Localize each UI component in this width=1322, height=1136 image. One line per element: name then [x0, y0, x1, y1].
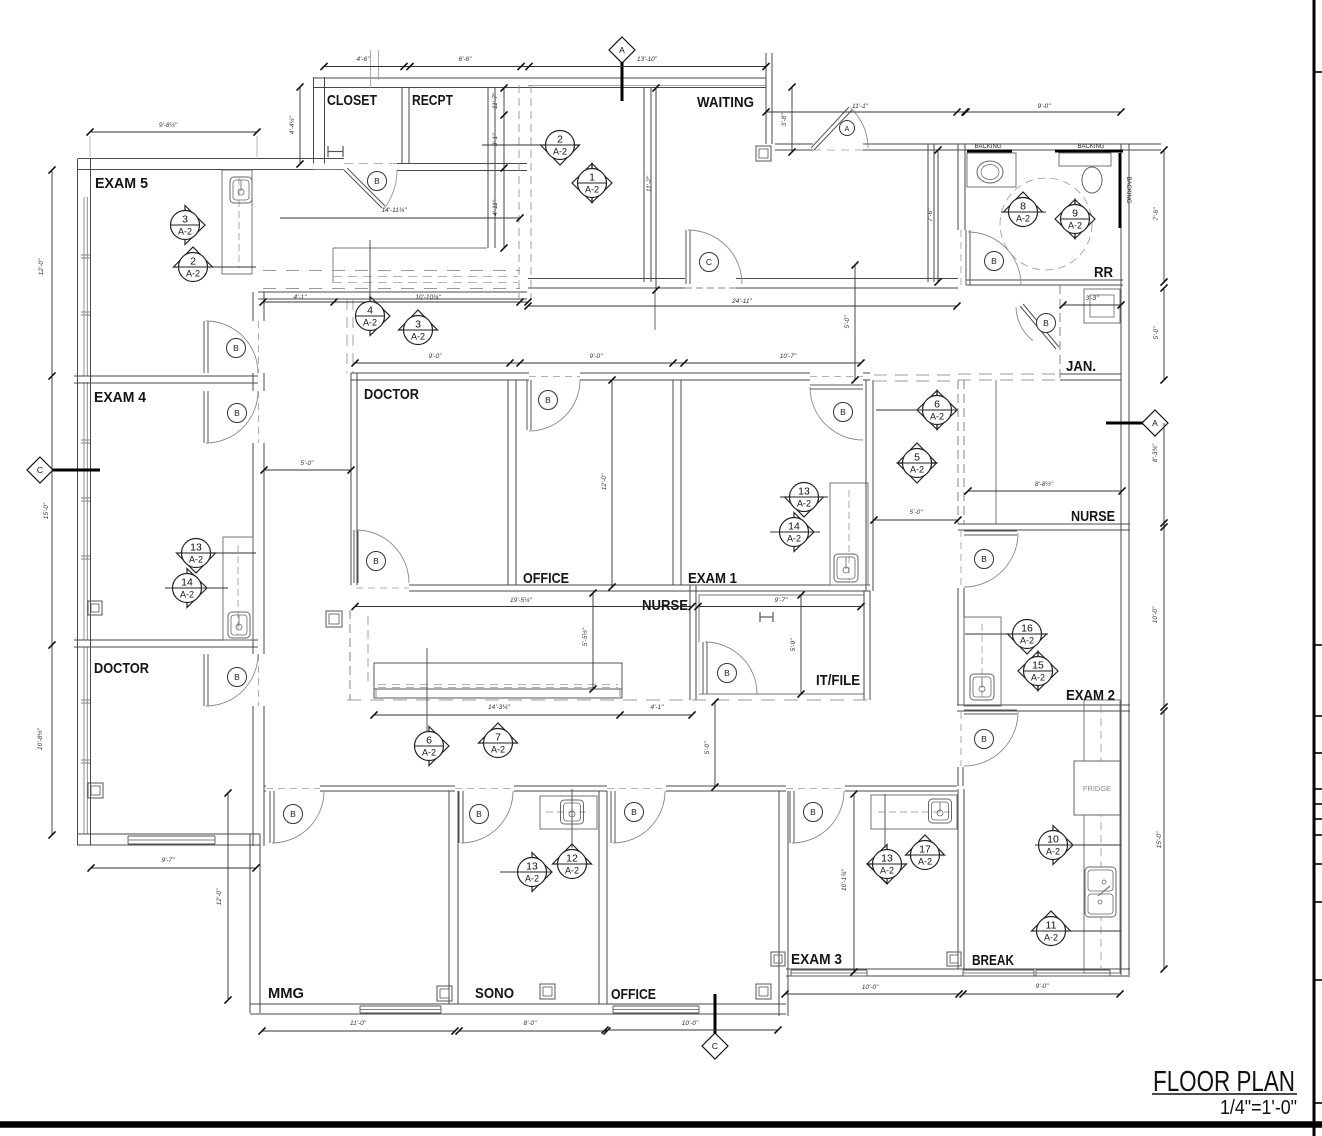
svg-text:EXAM 2: EXAM 2: [1066, 687, 1115, 704]
svg-text:7'-6": 7'-6": [927, 208, 934, 222]
svg-text:A-2: A-2: [1020, 636, 1034, 646]
svg-text:15: 15: [1032, 660, 1044, 672]
svg-text:B: B: [373, 556, 379, 566]
svg-text:A-2: A-2: [787, 534, 801, 544]
svg-text:RECPT: RECPT: [412, 92, 453, 109]
svg-text:19'-5¼": 19'-5¼": [510, 597, 533, 604]
svg-text:A: A: [845, 126, 850, 133]
svg-text:15'-0": 15'-0": [1156, 831, 1163, 848]
svg-text:A-2: A-2: [585, 185, 599, 195]
svg-text:A-2: A-2: [880, 866, 894, 876]
svg-text:13: 13: [798, 486, 810, 498]
svg-text:A-2: A-2: [565, 866, 579, 876]
svg-text:11'-1": 11'-1": [852, 103, 869, 110]
svg-text:BREAK: BREAK: [972, 952, 1014, 969]
svg-text:16: 16: [1021, 623, 1033, 635]
svg-text:A-2: A-2: [910, 465, 924, 475]
svg-text:BACKING: BACKING: [1077, 144, 1104, 150]
svg-text:B: B: [724, 668, 730, 678]
svg-text:4: 4: [367, 305, 373, 317]
svg-text:EXAM 1: EXAM 1: [688, 570, 737, 587]
svg-text:9'-0": 9'-0": [1038, 103, 1052, 110]
svg-text:13: 13: [881, 853, 893, 865]
svg-text:NURSE: NURSE: [1071, 508, 1115, 525]
svg-text:EXAM 5: EXAM 5: [95, 175, 148, 192]
svg-text:9: 9: [1072, 208, 1078, 220]
svg-text:5'-9": 5'-9": [790, 638, 797, 652]
svg-text:1/4"=1'-0": 1/4"=1'-0": [1220, 1097, 1297, 1119]
svg-text:A-2: A-2: [930, 412, 944, 422]
svg-text:4'-1": 4'-1": [294, 294, 308, 301]
svg-text:14: 14: [181, 577, 193, 589]
svg-text:15'-0": 15'-0": [43, 502, 50, 519]
svg-text:14'-3¼": 14'-3¼": [488, 704, 511, 711]
svg-text:A-2: A-2: [553, 147, 567, 157]
svg-text:10'-0": 10'-0": [1152, 606, 1159, 623]
svg-text:10: 10: [1047, 834, 1059, 846]
svg-text:3: 3: [415, 319, 421, 331]
svg-text:FRIDGE: FRIDGE: [1083, 784, 1111, 793]
svg-text:A-2: A-2: [1068, 221, 1082, 231]
svg-text:9'-8½": 9'-8½": [159, 121, 178, 129]
svg-text:C: C: [37, 465, 43, 475]
svg-text:9'-7": 9'-7": [775, 597, 789, 604]
svg-text:10'-0": 10'-0": [682, 1020, 699, 1027]
svg-text:1: 1: [589, 172, 595, 184]
svg-text:A-2: A-2: [1031, 673, 1045, 683]
svg-text:C: C: [706, 257, 712, 267]
svg-text:A-2: A-2: [422, 748, 436, 758]
svg-text:4'-6": 4'-6": [357, 56, 371, 63]
svg-text:5: 5: [914, 452, 920, 464]
svg-text:24'-11": 24'-11": [731, 298, 752, 305]
svg-text:A-2: A-2: [186, 269, 200, 279]
svg-text:5'-0": 5'-0": [910, 509, 924, 516]
svg-text:B: B: [234, 408, 240, 418]
svg-text:3'-3": 3'-3": [1086, 295, 1100, 302]
svg-text:11: 11: [1046, 920, 1057, 932]
svg-text:IT/FILE: IT/FILE: [816, 672, 860, 689]
svg-text:A-2: A-2: [1046, 847, 1060, 857]
svg-text:12: 12: [566, 853, 578, 865]
svg-text:11'-0": 11'-0": [350, 1020, 367, 1027]
svg-text:12'-0": 12'-0": [38, 258, 45, 275]
svg-text:13: 13: [526, 861, 538, 873]
svg-text:3'-1": 3'-1": [492, 133, 499, 147]
svg-text:DOCTOR: DOCTOR: [364, 386, 419, 403]
svg-text:A-2: A-2: [189, 555, 203, 565]
svg-text:B: B: [840, 407, 846, 417]
svg-text:A-2: A-2: [1016, 214, 1030, 224]
svg-text:B: B: [981, 734, 987, 744]
svg-text:BACKING: BACKING: [1125, 176, 1131, 203]
svg-text:6'-6": 6'-6": [459, 56, 473, 63]
svg-text:B: B: [233, 343, 239, 353]
svg-text:10'-7": 10'-7": [780, 353, 797, 360]
svg-text:7'-6": 7'-6": [1153, 207, 1160, 221]
svg-text:FLOOR PLAN: FLOOR PLAN: [1153, 1066, 1295, 1098]
svg-text:4'-4½": 4'-4½": [288, 115, 296, 134]
svg-text:B: B: [631, 807, 637, 817]
svg-text:11'-2": 11'-2": [646, 175, 653, 192]
svg-text:DOCTOR: DOCTOR: [94, 660, 149, 677]
svg-text:13'-10": 13'-10": [637, 56, 658, 63]
svg-text:C: C: [712, 1041, 718, 1051]
svg-text:A-2: A-2: [178, 227, 192, 237]
svg-text:3'-8": 3'-8": [781, 113, 788, 127]
svg-text:MMG: MMG: [268, 985, 304, 1002]
svg-text:6: 6: [426, 735, 432, 747]
svg-text:RR: RR: [1094, 264, 1113, 281]
svg-text:5'-0": 5'-0": [844, 315, 851, 329]
svg-text:WAITING: WAITING: [697, 94, 754, 111]
svg-text:SONO: SONO: [475, 985, 514, 1002]
svg-text:14'-11¼": 14'-11¼": [381, 207, 407, 214]
svg-text:14: 14: [788, 521, 800, 533]
svg-text:B: B: [290, 809, 296, 819]
svg-text:B: B: [981, 554, 987, 564]
svg-text:B: B: [991, 256, 997, 266]
svg-text:OFFICE: OFFICE: [523, 570, 569, 587]
svg-text:6: 6: [934, 399, 940, 411]
svg-text:5'-5½": 5'-5½": [581, 627, 589, 646]
svg-text:11'-7": 11'-7": [492, 92, 499, 109]
svg-text:10'-1¾": 10'-1¾": [841, 868, 848, 891]
svg-text:B: B: [234, 672, 240, 682]
svg-text:8'-0": 8'-0": [524, 1020, 538, 1027]
svg-text:5'-0": 5'-0": [301, 460, 315, 467]
svg-text:9'-0": 9'-0": [1036, 983, 1050, 990]
svg-text:2: 2: [190, 256, 196, 268]
svg-text:A-2: A-2: [797, 499, 811, 509]
svg-text:10'-0": 10'-0": [862, 984, 879, 991]
svg-text:JAN.: JAN.: [1066, 358, 1096, 375]
svg-text:17: 17: [919, 844, 931, 856]
svg-text:12'-0": 12'-0": [601, 473, 608, 490]
svg-text:7: 7: [495, 732, 501, 744]
svg-text:3: 3: [182, 214, 188, 226]
svg-text:B: B: [1043, 318, 1049, 328]
svg-text:EXAM 3: EXAM 3: [791, 951, 842, 968]
svg-text:B: B: [476, 809, 482, 819]
svg-text:12'-0": 12'-0": [216, 888, 223, 905]
svg-text:A-2: A-2: [411, 332, 425, 342]
svg-text:A: A: [619, 45, 625, 55]
svg-text:NURSE: NURSE: [642, 597, 688, 614]
svg-text:A: A: [1152, 418, 1158, 428]
svg-text:10'-8½": 10'-8½": [36, 727, 44, 750]
svg-text:4'-11": 4'-11": [492, 199, 499, 216]
svg-text:8'-8½": 8'-8½": [1035, 480, 1054, 488]
svg-text:4'-1": 4'-1": [651, 704, 665, 711]
svg-text:OFFICE: OFFICE: [611, 986, 656, 1003]
svg-text:10'-10¼": 10'-10¼": [415, 294, 441, 301]
svg-text:5'-0": 5'-0": [1153, 326, 1160, 340]
svg-text:9'-0": 9'-0": [590, 353, 604, 360]
svg-text:A-2: A-2: [525, 874, 539, 884]
svg-text:A-2: A-2: [1044, 933, 1058, 943]
svg-text:8: 8: [1020, 201, 1026, 213]
svg-text:BACKING: BACKING: [974, 144, 1001, 150]
svg-text:B: B: [545, 395, 551, 405]
svg-text:8'-3¾": 8'-3¾": [1152, 443, 1159, 462]
svg-text:EXAM 4: EXAM 4: [94, 389, 147, 406]
svg-text:13: 13: [190, 542, 202, 554]
svg-text:A-2: A-2: [918, 857, 932, 867]
svg-text:B: B: [374, 176, 380, 186]
svg-text:2: 2: [557, 134, 563, 146]
svg-text:A-2: A-2: [363, 318, 377, 328]
svg-text:9'-0": 9'-0": [429, 353, 443, 360]
svg-text:A-2: A-2: [180, 590, 194, 600]
svg-text:CLOSET: CLOSET: [327, 92, 377, 109]
svg-text:B: B: [810, 807, 816, 817]
svg-text:A-2: A-2: [491, 745, 505, 755]
svg-text:9'-7": 9'-7": [162, 857, 176, 864]
svg-text:5'-0": 5'-0": [704, 741, 711, 755]
